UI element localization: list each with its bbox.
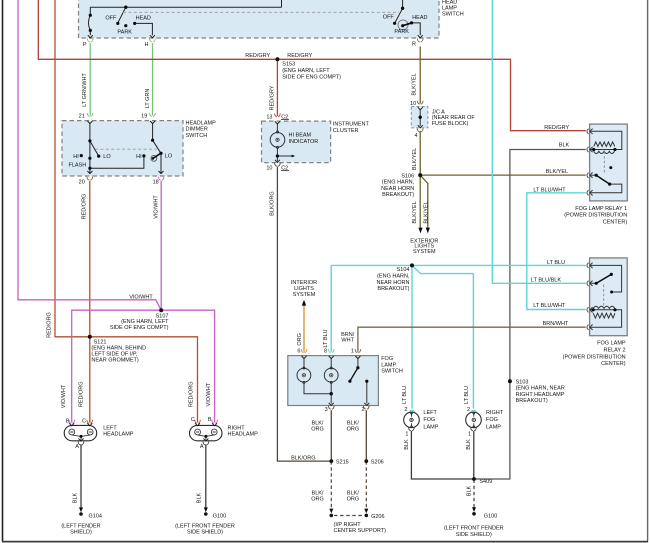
svg-text:VIO/WHT: VIO/WHT: [61, 384, 67, 408]
svg-text:BLK/YEL: BLK/YEL: [412, 73, 418, 95]
svg-text:BRN/WHT: BRN/WHT: [543, 321, 569, 327]
svg-text:BREAKOUT): BREAKOUT): [382, 192, 414, 198]
svg-text:(ENG HARN, NEAR: (ENG HARN, NEAR: [516, 386, 565, 392]
svg-text:LT BLU: LT BLU: [402, 386, 408, 404]
svg-text:SYSTEM: SYSTEM: [413, 249, 436, 255]
svg-text:S106: S106: [401, 173, 414, 179]
svg-text:FOG LAMP RELAY 1: FOG LAMP RELAY 1: [575, 206, 627, 212]
svg-text:OFF: OFF: [105, 16, 117, 22]
svg-text:21: 21: [79, 113, 85, 119]
svg-text:BLK/YEL: BLK/YEL: [412, 148, 418, 170]
svg-text:WHT: WHT: [341, 338, 354, 344]
svg-text:BLK/ORG: BLK/ORG: [291, 455, 315, 461]
svg-text:SYSTEM: SYSTEM: [293, 292, 316, 298]
svg-text:2: 2: [467, 407, 470, 413]
svg-text:BREAKOUT): BREAKOUT): [516, 398, 548, 404]
svg-text:SIDE OF ENG COMPT): SIDE OF ENG COMPT): [282, 75, 341, 81]
svg-text:LT BLU: LT BLU: [464, 386, 470, 404]
svg-text:SIDE OF ENG COMPT): SIDE OF ENG COMPT): [110, 325, 169, 331]
svg-text:(ENG HARN,: (ENG HARN,: [382, 180, 415, 186]
svg-text:HEAD: HEAD: [412, 15, 427, 21]
svg-text:6: 6: [297, 348, 300, 354]
svg-text:LO: LO: [103, 154, 111, 160]
svg-text:S103: S103: [516, 380, 529, 386]
svg-text:VIO/WHT: VIO/WHT: [206, 382, 212, 406]
svg-text:G206: G206: [371, 514, 384, 520]
svg-text:SHIELD): SHIELD): [70, 530, 92, 536]
svg-text:S121: S121: [94, 339, 107, 345]
svg-text:RIGHT HEADLAMP: RIGHT HEADLAMP: [516, 392, 565, 398]
svg-text:HEAD: HEAD: [136, 16, 151, 22]
svg-text:FOG: FOG: [381, 356, 393, 362]
svg-text:LAMP: LAMP: [423, 425, 438, 431]
svg-text:LT GRN/WHT: LT GRN/WHT: [82, 73, 88, 107]
svg-text:20: 20: [79, 179, 85, 185]
svg-text:LT GRN: LT GRN: [145, 89, 151, 109]
svg-text:B: B: [66, 418, 70, 424]
svg-text:CENTER): CENTER): [603, 219, 628, 225]
svg-text:NEAR HORN: NEAR HORN: [376, 280, 409, 286]
svg-text:BLK/YEL: BLK/YEL: [546, 169, 568, 175]
svg-text:CENTER): CENTER): [601, 361, 626, 367]
svg-text:RED/ORG: RED/ORG: [189, 381, 195, 407]
svg-text:BLK: BLK: [466, 485, 472, 496]
svg-text:BLK: BLK: [72, 492, 78, 503]
svg-text:R: R: [412, 42, 416, 48]
svg-text:H: H: [145, 42, 149, 48]
svg-text:RED/GRY: RED/GRY: [245, 53, 270, 59]
svg-text:BLK: BLK: [559, 143, 570, 149]
svg-text:2: 2: [361, 407, 364, 413]
svg-text:VIO/WHT: VIO/WHT: [154, 195, 160, 219]
svg-text:S104: S104: [397, 267, 410, 273]
svg-text:LAMP: LAMP: [486, 425, 501, 431]
svg-text:NEAR HORN: NEAR HORN: [381, 186, 414, 192]
svg-text:B: B: [208, 417, 212, 423]
svg-text:FOG: FOG: [423, 417, 435, 423]
svg-text:LT BLU/WHT: LT BLU/WHT: [533, 187, 566, 193]
svg-text:ORG: ORG: [297, 333, 303, 346]
svg-text:G100: G100: [484, 513, 497, 519]
svg-text:S206: S206: [371, 459, 384, 465]
svg-text:18: 18: [153, 179, 159, 185]
svg-text:BLK: BLK: [466, 439, 472, 450]
svg-text:3: 3: [325, 407, 328, 413]
svg-text:BLK/ORG: BLK/ORG: [269, 191, 275, 215]
svg-text:INSTRUMENT: INSTRUMENT: [333, 122, 370, 128]
svg-text:HEADLAMP: HEADLAMP: [228, 432, 259, 438]
svg-text:FOG: FOG: [486, 417, 498, 423]
svg-text:HI: HI: [73, 154, 79, 160]
svg-text:A: A: [75, 444, 79, 450]
svg-text:P: P: [83, 42, 87, 48]
svg-text:FLASH: FLASH: [68, 162, 86, 168]
svg-text:LEFT: LEFT: [423, 410, 437, 416]
svg-text:LEFT: LEFT: [103, 425, 117, 431]
svg-text:RIGHT: RIGHT: [486, 410, 504, 416]
svg-text:1: 1: [468, 431, 471, 437]
svg-text:(ENG HARN,: (ENG HARN,: [377, 274, 410, 280]
svg-text:ORG: ORG: [311, 427, 324, 433]
svg-text:SIDE SHIELD): SIDE SHIELD): [456, 532, 492, 538]
svg-text:C: C: [191, 417, 195, 423]
svg-text:LT BLU: LT BLU: [323, 329, 329, 347]
svg-text:(LEFT FRONT FENDER: (LEFT FRONT FENDER: [444, 525, 504, 531]
svg-text:C: C: [82, 418, 86, 424]
svg-text:S215: S215: [336, 459, 349, 465]
svg-text:ORG: ORG: [311, 497, 324, 503]
svg-text:CENTER SUPPORT): CENTER SUPPORT): [334, 528, 387, 534]
svg-text:1: 1: [351, 348, 354, 354]
svg-text:SIDE SHIELD): SIDE SHIELD): [187, 530, 223, 536]
svg-text:G100: G100: [213, 514, 226, 520]
svg-text:S153: S153: [282, 62, 295, 68]
svg-text:(LEFT FRONT FENDER: (LEFT FRONT FENDER: [175, 523, 235, 529]
svg-text:RELAY 2: RELAY 2: [603, 347, 625, 353]
svg-text:INDICATOR: INDICATOR: [289, 139, 319, 145]
svg-text:1: 1: [405, 431, 408, 437]
svg-text:(POWER DISTRIBUTION: (POWER DISTRIBUTION: [563, 354, 626, 360]
svg-text:BLK/YEL: BLK/YEL: [424, 201, 430, 223]
svg-text:LAMP: LAMP: [442, 5, 457, 11]
svg-text:(ENG HARN, LEFT: (ENG HARN, LEFT: [282, 68, 330, 74]
svg-text:HI: HI: [136, 154, 142, 160]
svg-text:LT BLU/WHT: LT BLU/WHT: [533, 303, 566, 309]
svg-text:ORG: ORG: [347, 427, 360, 433]
svg-text:LAMP: LAMP: [381, 363, 396, 369]
svg-text:10: 10: [266, 165, 272, 171]
svg-text:LT BLU/BLK: LT BLU/BLK: [531, 277, 561, 283]
svg-text:19: 19: [141, 113, 147, 119]
svg-text:NEAR GROMMET): NEAR GROMMET): [91, 357, 139, 363]
svg-text:10: 10: [410, 101, 416, 107]
svg-text:RED/GRY: RED/GRY: [287, 53, 312, 59]
svg-text:SWITCH: SWITCH: [186, 133, 208, 139]
svg-text:SWITCH: SWITCH: [442, 12, 464, 18]
svg-text:VIO/WHT: VIO/WHT: [129, 294, 153, 300]
svg-text:A: A: [200, 444, 204, 450]
svg-text:CLUSTER: CLUSTER: [333, 128, 359, 134]
svg-text:(POWER DISTRIBUTION: (POWER DISTRIBUTION: [564, 213, 627, 219]
svg-text:8: 8: [324, 348, 327, 354]
svg-text:13: 13: [266, 114, 272, 120]
svg-text:FOG LAMP: FOG LAMP: [597, 341, 626, 347]
svg-text:RED/GRY: RED/GRY: [544, 125, 569, 131]
svg-text:RED/ORG: RED/ORG: [81, 194, 87, 220]
svg-text:BLK/YEL: BLK/YEL: [412, 201, 418, 223]
svg-text:RED/ORG: RED/ORG: [79, 381, 85, 407]
svg-text:S409: S409: [479, 479, 492, 485]
svg-text:FUSE BLOCK): FUSE BLOCK): [432, 121, 469, 127]
svg-text:RED/ORG: RED/ORG: [47, 312, 53, 338]
svg-text:BLK: BLK: [197, 492, 203, 503]
svg-text:LT BLU: LT BLU: [547, 260, 565, 266]
svg-text:ORG: ORG: [347, 497, 360, 503]
svg-text:HI BEAM: HI BEAM: [289, 133, 312, 139]
svg-text:2: 2: [404, 407, 407, 413]
svg-text:OFF: OFF: [383, 15, 395, 21]
svg-text:RIGHT: RIGHT: [228, 425, 246, 431]
svg-text:LO: LO: [165, 154, 173, 160]
svg-text:SWITCH: SWITCH: [381, 369, 403, 375]
svg-text:BLK: BLK: [404, 439, 410, 450]
svg-text:DIMMER: DIMMER: [186, 127, 208, 133]
svg-text:PARK: PARK: [117, 30, 132, 36]
svg-text:HEADLAMP: HEADLAMP: [103, 432, 134, 438]
svg-text:PARK: PARK: [394, 29, 409, 35]
svg-text:4: 4: [414, 133, 417, 139]
svg-text:G104: G104: [89, 514, 102, 520]
svg-text:HEADLAMP: HEADLAMP: [186, 120, 217, 126]
svg-text:RED/GRY: RED/GRY: [269, 85, 275, 110]
svg-text:(LEFT FENDER: (LEFT FENDER: [61, 523, 100, 529]
svg-text:BREAKOUT): BREAKOUT): [377, 286, 409, 292]
